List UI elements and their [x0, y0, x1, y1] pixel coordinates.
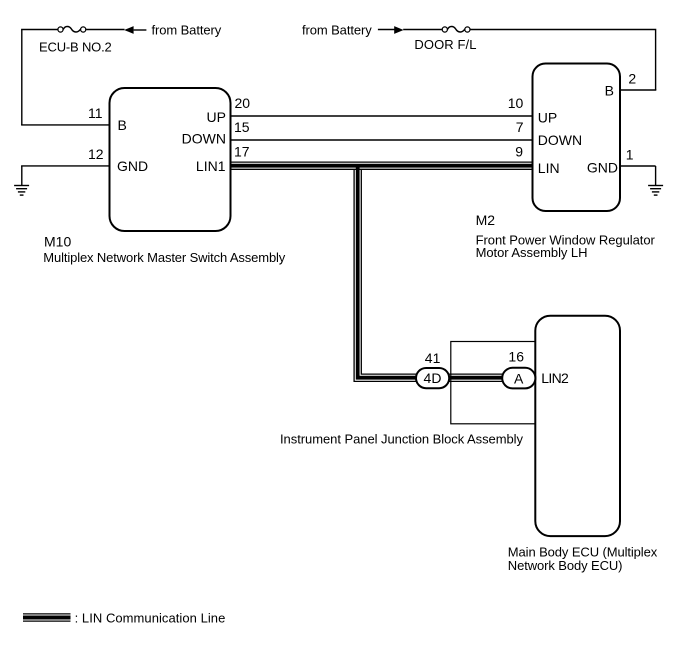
svg-text:B: B [118, 117, 127, 133]
svg-text:DOOR F/L: DOOR F/L [414, 37, 476, 52]
svg-text:LIN1: LIN1 [196, 158, 226, 174]
svg-text:9: 9 [515, 144, 523, 160]
svg-text:Instrument Panel Junction Bloc: Instrument Panel Junction Block Assembly [280, 432, 524, 447]
svg-text:Motor Assembly LH: Motor Assembly LH [476, 245, 588, 260]
svg-text:from Battery: from Battery [302, 23, 372, 38]
svg-text:1: 1 [626, 147, 634, 163]
svg-text:B: B [605, 82, 614, 98]
svg-text:DOWN: DOWN [182, 131, 226, 147]
svg-text:15: 15 [234, 119, 250, 135]
svg-text:: LIN Communication Line: : LIN Communication Line [75, 611, 226, 626]
svg-text:20: 20 [235, 95, 251, 111]
svg-text:DOWN: DOWN [538, 132, 582, 148]
svg-text:UP: UP [538, 109, 557, 125]
svg-text:16: 16 [508, 349, 524, 365]
svg-text:11: 11 [88, 105, 103, 121]
svg-text:GND: GND [587, 160, 618, 176]
svg-text:41: 41 [425, 350, 441, 366]
svg-text:7: 7 [516, 119, 524, 135]
svg-text:Network Body ECU): Network Body ECU) [508, 558, 623, 573]
svg-text:4D: 4D [424, 370, 442, 386]
svg-text:17: 17 [234, 144, 250, 160]
svg-text:2: 2 [628, 70, 636, 86]
svg-text:UP: UP [207, 109, 226, 125]
svg-text:from Battery: from Battery [152, 23, 222, 38]
svg-text:10: 10 [508, 95, 524, 111]
svg-text:12: 12 [88, 146, 104, 162]
svg-text:LIN: LIN [538, 160, 560, 176]
svg-text:LIN2: LIN2 [541, 370, 569, 386]
svg-text:ECU-B NO.2: ECU-B NO.2 [39, 40, 112, 55]
svg-text:A: A [514, 370, 524, 386]
svg-text:Multiplex Network Master Switc: Multiplex Network Master Switch Assembly [43, 250, 286, 265]
svg-text:M2: M2 [476, 212, 496, 228]
svg-text:GND: GND [117, 158, 148, 174]
svg-text:M10: M10 [44, 234, 71, 250]
